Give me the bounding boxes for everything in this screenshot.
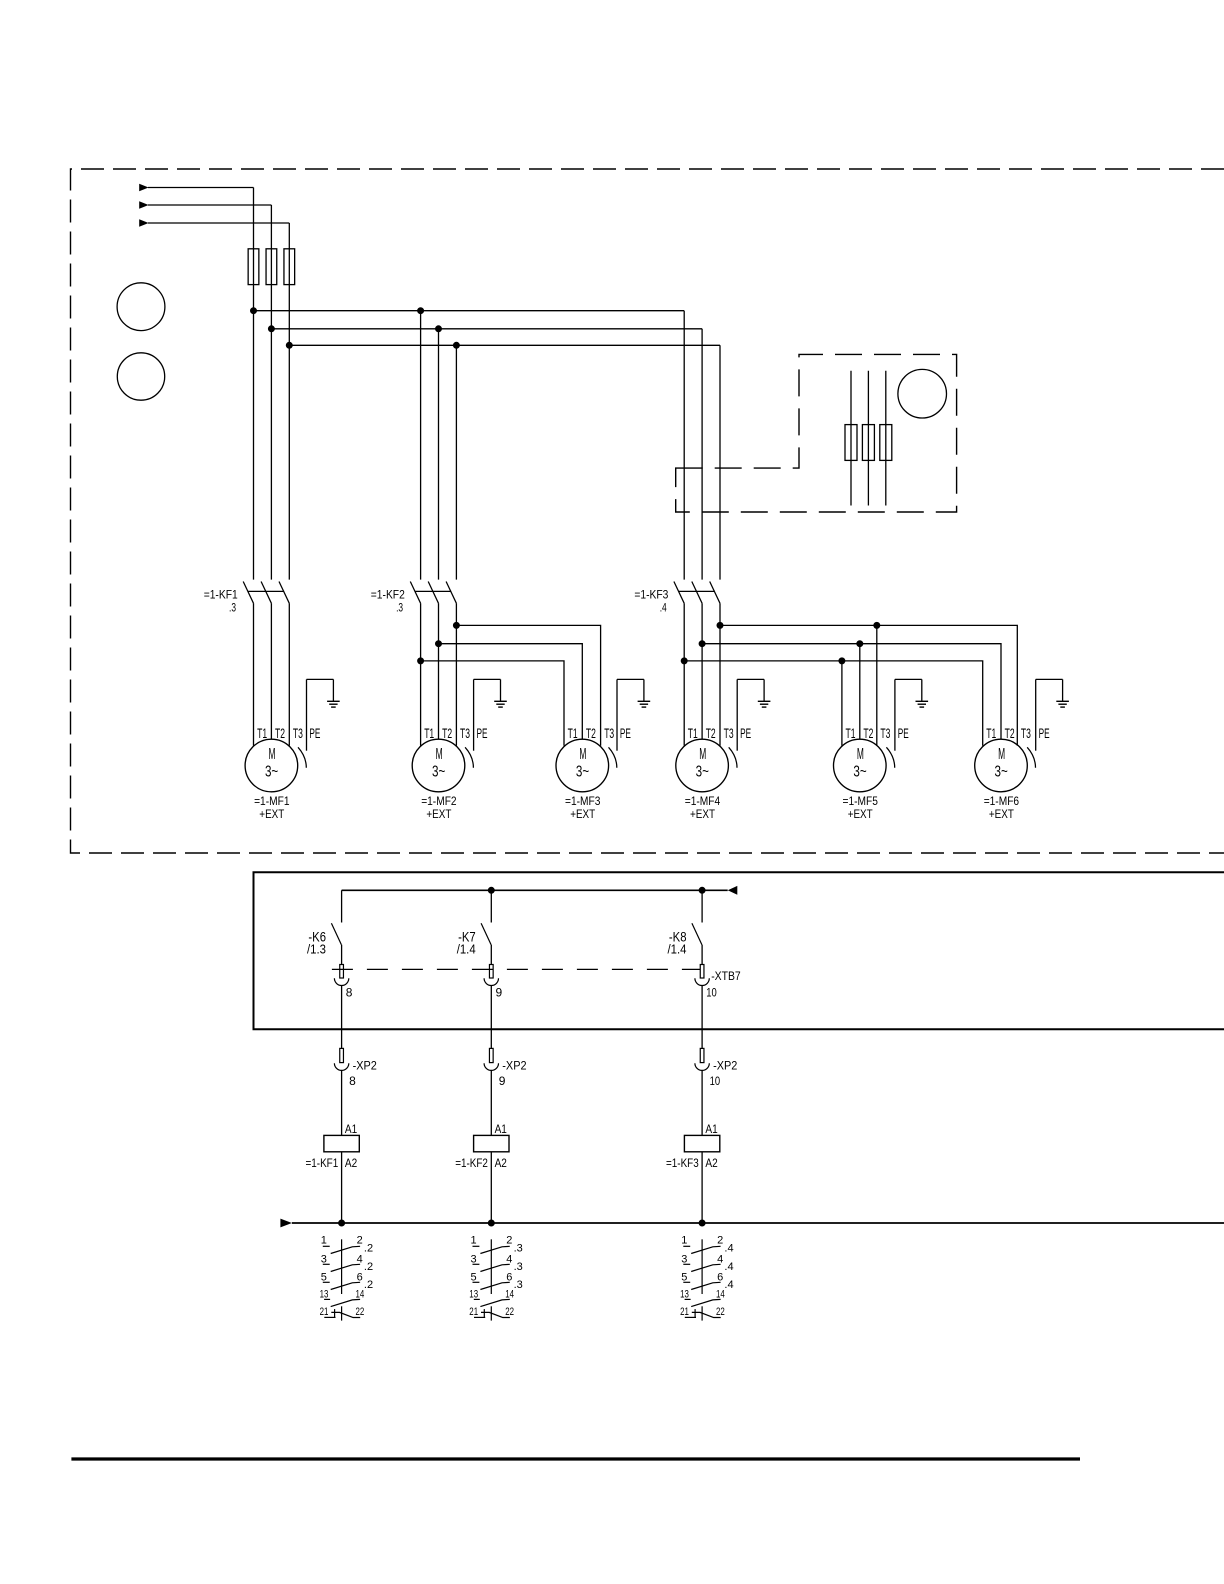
contact mirror linkage =1-KF1	[341, 1239, 343, 1294]
switch contact -K8	[692, 923, 702, 944]
junction bus K8	[699, 887, 705, 893]
svg-text:13: 13	[469, 1289, 478, 1301]
wire L1 vertical to contact	[253, 188, 255, 580]
plug pin -XP2:9	[489, 1048, 493, 1062]
ground =1-MF5	[921, 679, 923, 701]
motor =1-MF3	[556, 739, 609, 792]
svg-text:PE: PE	[620, 725, 631, 741]
svg-text:A1: A1	[495, 1122, 508, 1136]
switch contact -K6	[331, 923, 341, 944]
svg-text:14: 14	[505, 1289, 514, 1301]
svg-text:/1.4: /1.4	[457, 941, 476, 956]
wire -K7 to terminal	[490, 945, 492, 965]
svg-text:-XP2: -XP2	[353, 1058, 378, 1072]
feeder dashed enclosure	[676, 354, 957, 512]
svg-text:.3: .3	[229, 600, 236, 614]
feeder fuse 2	[862, 425, 874, 461]
svg-text:T1: T1	[688, 725, 698, 741]
svg-text:T3: T3	[724, 725, 734, 741]
junction L2 at group1	[268, 326, 274, 332]
svg-text:2: 2	[357, 1235, 363, 1247]
switch contact -K7	[481, 923, 491, 944]
svg-text:22: 22	[505, 1306, 514, 1318]
wire -K7 terminal to plug	[490, 986, 492, 1049]
svg-text:=1-KF2: =1-KF2	[455, 1156, 488, 1170]
svg-text:PE: PE	[898, 725, 909, 741]
terminal strip -XTB7 dashed line	[332, 968, 700, 970]
wire coil =1-KF1 to bus	[341, 1152, 343, 1223]
PE arc =1-MF5	[886, 747, 894, 767]
svg-text:.3: .3	[514, 1279, 523, 1291]
wire branch KF2-MF3 T2	[439, 644, 583, 740]
junction bus coil 2	[488, 1220, 494, 1226]
junction MF5 tap T1	[839, 658, 845, 664]
wire MF5 T3 drop	[876, 625, 878, 745]
svg-text:=1-KF1: =1-KF1	[306, 1156, 339, 1170]
wire group2 T1 contact to motor	[420, 603, 422, 746]
terminal socket -XTB7:8	[334, 978, 348, 985]
svg-text:T3: T3	[460, 725, 470, 741]
svg-text:+EXT: +EXT	[989, 807, 1014, 821]
PE arc =1-MF1	[298, 747, 306, 767]
wire group1 T3 contact to motor	[288, 603, 290, 746]
wire L3 vertical to contact	[288, 223, 290, 580]
instrument circle top	[117, 283, 165, 331]
junction bus K7	[488, 887, 494, 893]
plug socket -XP2:8	[334, 1063, 348, 1070]
wire -K7 upper	[490, 890, 492, 922]
svg-text:21: 21	[320, 1306, 329, 1318]
svg-text:3~: 3~	[853, 763, 866, 780]
svg-text:T2: T2	[863, 725, 873, 741]
coil =1-KF1	[324, 1135, 359, 1151]
feeder wire 1	[850, 371, 852, 506]
junction L1 at group2 tap	[418, 308, 424, 314]
PE arc =1-MF2	[465, 747, 473, 767]
fuse F3	[284, 249, 295, 285]
svg-text:6: 6	[717, 1271, 723, 1283]
wire coil =1-KF2 to bus	[490, 1152, 492, 1223]
svg-text:.4: .4	[724, 1242, 733, 1254]
svg-text:21: 21	[680, 1306, 689, 1318]
wire supply L2 horizontal	[148, 204, 271, 206]
wire group1 T2 contact to motor	[270, 603, 272, 739]
terminal pin -XTB7:8	[340, 965, 344, 979]
svg-text:T2: T2	[586, 725, 596, 741]
feeder fuse 3	[880, 425, 892, 461]
junction L3 at group2 tap	[453, 342, 459, 348]
svg-text:3: 3	[321, 1253, 327, 1265]
supply arrow L3	[139, 219, 148, 227]
bus continuation arrow	[728, 886, 738, 895]
instrument circle bottom	[117, 353, 164, 400]
svg-text:T2: T2	[275, 725, 285, 741]
wire group1 T1 contact to motor	[253, 603, 255, 746]
junction L3 at group1	[286, 342, 292, 348]
wire branch KF2-MF3 T3	[456, 625, 600, 745]
svg-text:=1-KF2: =1-KF2	[371, 587, 405, 601]
junction branch T1	[681, 658, 687, 664]
svg-text:A1: A1	[705, 1122, 718, 1136]
wire PE-ground link =1-MF4	[737, 678, 764, 680]
ground =1-MF4	[763, 679, 765, 701]
svg-text:=1-KF3: =1-KF3	[666, 1156, 699, 1170]
svg-text:+EXT: +EXT	[848, 807, 873, 821]
wire supply L1 horizontal	[148, 187, 254, 189]
svg-text:9: 9	[496, 986, 503, 1000]
wire branch KF3-MF6 T1	[684, 661, 983, 746]
wire L3 drop to KF2	[455, 345, 457, 579]
svg-text:8: 8	[349, 1074, 356, 1088]
wire -K6 upper	[341, 890, 343, 922]
svg-text:A1: A1	[345, 1122, 358, 1136]
coil =1-KF2	[474, 1135, 509, 1151]
svg-text:T3: T3	[293, 725, 303, 741]
control bus L+	[342, 889, 728, 891]
svg-text:A2: A2	[705, 1156, 718, 1170]
svg-text:M: M	[998, 746, 1005, 763]
wire distribution L3 horizontal	[289, 344, 720, 346]
wire group4 T1 contact to motor	[683, 603, 685, 746]
svg-text:T2: T2	[442, 725, 452, 741]
svg-text:T3: T3	[604, 725, 614, 741]
contact mirror linkage =1-KF2	[490, 1239, 492, 1294]
svg-text:PE: PE	[1039, 725, 1050, 741]
bus N continuation arrow	[280, 1219, 292, 1228]
junction branch T2	[699, 641, 705, 647]
wire group2 T2 contact to motor	[438, 603, 440, 739]
ground =1-MF2	[500, 679, 502, 701]
svg-text:T2: T2	[706, 725, 716, 741]
svg-text:.4: .4	[660, 600, 667, 614]
svg-text:9: 9	[499, 1074, 506, 1088]
svg-text:.3: .3	[514, 1261, 523, 1273]
contactor main contacts =1-KF3	[674, 582, 684, 604]
junction bus coil 1	[339, 1220, 345, 1226]
wire L1 drop to KF2	[420, 311, 422, 580]
svg-text:+EXT: +EXT	[690, 807, 715, 821]
wire PE drop =1-MF1	[306, 679, 308, 750]
svg-text:4: 4	[506, 1253, 512, 1265]
svg-text:5: 5	[470, 1271, 476, 1283]
wire PE drop =1-MF5	[894, 679, 896, 750]
wire PE-ground link =1-MF3	[617, 678, 644, 680]
junction L2 at group2 tap	[436, 326, 442, 332]
terminal pin -XTB7:9	[489, 965, 493, 979]
wire group2 T3 contact to motor	[455, 603, 457, 746]
wire L2 vertical to contact	[270, 205, 272, 580]
svg-text:T1: T1	[986, 725, 996, 741]
svg-text:=1-MF4: =1-MF4	[685, 794, 721, 808]
svg-text:14: 14	[356, 1289, 365, 1301]
wire MF5 T2 drop	[859, 644, 861, 740]
junction MF5 tap T2	[857, 641, 863, 647]
plug pin -XP2:8	[340, 1048, 344, 1062]
plug socket -XP2:10	[695, 1063, 709, 1070]
feeder fuse 1	[845, 425, 857, 461]
svg-text:6: 6	[357, 1271, 363, 1283]
svg-text:T1: T1	[424, 725, 434, 741]
svg-text:22: 22	[716, 1306, 725, 1318]
junction branch T3	[717, 622, 723, 628]
svg-text:2: 2	[506, 1235, 512, 1247]
svg-text:-XP2: -XP2	[713, 1058, 738, 1072]
junction branch T2	[436, 641, 442, 647]
svg-text:3~: 3~	[576, 763, 589, 780]
svg-text:10: 10	[710, 1074, 721, 1088]
wire PE-ground link =1-MF5	[895, 678, 922, 680]
svg-text:1: 1	[470, 1235, 476, 1247]
PE arc =1-MF4	[729, 747, 737, 767]
supply arrow L1	[139, 184, 148, 192]
svg-text:3~: 3~	[265, 763, 278, 780]
svg-text:13: 13	[320, 1289, 329, 1301]
motor =1-MF4	[676, 739, 729, 792]
svg-text:+EXT: +EXT	[426, 807, 451, 821]
svg-text:PE: PE	[740, 725, 751, 741]
svg-text:PE: PE	[309, 725, 320, 741]
junction L1 at group1	[251, 308, 257, 314]
svg-text:.3: .3	[514, 1242, 523, 1254]
wire supply L3 horizontal	[148, 222, 289, 224]
svg-text:T1: T1	[568, 725, 578, 741]
ground =1-MF1	[332, 679, 334, 701]
svg-text:6: 6	[506, 1271, 512, 1283]
contactor main contacts =1-KF2	[410, 582, 420, 604]
wire PE drop =1-MF2	[473, 679, 475, 750]
svg-text:10: 10	[706, 986, 717, 1000]
wire plug to coil =1-KF1	[341, 1071, 343, 1136]
svg-text:T3: T3	[880, 725, 890, 741]
wire distribution L1 horizontal	[254, 310, 685, 312]
feeder wire 2	[867, 371, 869, 506]
svg-text:M: M	[699, 746, 706, 763]
svg-text:=1-MF3: =1-MF3	[565, 794, 601, 808]
svg-text:=1-MF1: =1-MF1	[254, 794, 290, 808]
PE arc =1-MF6	[1027, 747, 1035, 767]
wire L2 drop to KF3	[701, 329, 703, 580]
svg-text:.4: .4	[724, 1261, 733, 1273]
junction MF5 tap T3	[874, 622, 880, 628]
svg-text:-XTB7: -XTB7	[711, 969, 741, 983]
svg-text:+EXT: +EXT	[570, 807, 595, 821]
svg-text:=1-KF3: =1-KF3	[634, 587, 668, 601]
title block rule	[71, 1457, 1080, 1460]
fuse F2	[266, 249, 277, 285]
wire L1 drop to KF3	[683, 311, 685, 580]
svg-text:+EXT: +EXT	[259, 807, 284, 821]
feeder wire 3	[885, 371, 887, 506]
wire L2 drop to KF2	[438, 329, 440, 580]
svg-text:T1: T1	[846, 725, 856, 741]
svg-text:3~: 3~	[995, 763, 1008, 780]
wire PE-ground link =1-MF2	[474, 678, 501, 680]
wire PE drop =1-MF4	[736, 679, 738, 750]
svg-text:M: M	[579, 746, 586, 763]
motor =1-MF6	[975, 739, 1028, 792]
supply arrow L2	[139, 201, 148, 209]
svg-text:M: M	[857, 746, 864, 763]
wire coil =1-KF3 to bus	[701, 1152, 703, 1223]
svg-text:=1-KF1: =1-KF1	[204, 587, 238, 601]
svg-text:4: 4	[357, 1253, 363, 1265]
ground =1-MF6	[1062, 679, 1064, 701]
svg-text:.2: .2	[364, 1242, 373, 1254]
svg-text:A2: A2	[495, 1156, 508, 1170]
wire -K6 to terminal	[341, 945, 343, 965]
wire plug to coil =1-KF2	[490, 1071, 492, 1136]
wire PE-ground link =1-MF1	[307, 678, 334, 680]
junction branch T3	[453, 622, 459, 628]
wire -K8 terminal to plug	[701, 986, 703, 1049]
plug socket -XP2:9	[484, 1063, 498, 1070]
wire L3 drop to KF3	[719, 345, 721, 579]
plug pin -XP2:10	[700, 1048, 704, 1062]
svg-text:.2: .2	[364, 1261, 373, 1273]
junction bus coil 3	[699, 1220, 705, 1226]
wire PE drop =1-MF3	[616, 679, 618, 750]
contactor main contacts =1-KF1	[243, 582, 253, 604]
svg-text:5: 5	[321, 1271, 327, 1283]
control panel solid border	[254, 872, 1224, 1029]
motor =1-MF5	[834, 739, 887, 792]
wire -K6 terminal to plug	[341, 986, 343, 1049]
svg-text:13: 13	[680, 1289, 689, 1301]
terminal socket -XTB7:10	[695, 978, 709, 985]
svg-text:22: 22	[356, 1306, 365, 1318]
svg-text:/1.3: /1.3	[307, 941, 326, 956]
svg-text:14: 14	[716, 1289, 725, 1301]
wire -K8 to terminal	[701, 945, 703, 965]
feeder instrument circle	[898, 369, 947, 418]
svg-text:T3: T3	[1021, 725, 1031, 741]
control bus N/M	[292, 1222, 1224, 1224]
svg-text:M: M	[436, 746, 443, 763]
svg-text:M: M	[269, 746, 276, 763]
svg-text:3~: 3~	[432, 763, 445, 780]
svg-text:1: 1	[321, 1235, 327, 1247]
terminal socket -XTB7:9	[484, 978, 498, 985]
coil =1-KF3	[684, 1135, 719, 1151]
svg-text:.2: .2	[364, 1279, 373, 1291]
svg-text:2: 2	[717, 1235, 723, 1247]
wire PE-ground link =1-MF6	[1036, 678, 1063, 680]
wire -K8 upper	[701, 890, 703, 922]
svg-text:3~: 3~	[696, 763, 709, 780]
ground =1-MF3	[643, 679, 645, 701]
wire plug to coil =1-KF3	[701, 1071, 703, 1136]
svg-text:-XP2: -XP2	[502, 1058, 527, 1072]
motor =1-MF2	[412, 739, 465, 792]
svg-text:A2: A2	[345, 1156, 358, 1170]
contact mirror linkage =1-KF3	[701, 1239, 703, 1294]
svg-text:4: 4	[717, 1253, 723, 1265]
svg-text:3: 3	[681, 1253, 687, 1265]
svg-text:1: 1	[681, 1235, 687, 1247]
svg-text:8: 8	[346, 986, 353, 1000]
svg-text:PE: PE	[477, 725, 488, 741]
wire branch KF3-MF6 T3	[720, 625, 1017, 745]
svg-text:.4: .4	[724, 1279, 733, 1291]
wire distribution L2 horizontal	[271, 328, 702, 330]
wire MF5 T1 drop	[841, 661, 843, 746]
svg-text:=1-MF5: =1-MF5	[843, 794, 879, 808]
fuse F1	[248, 249, 259, 285]
svg-text:=1-MF2: =1-MF2	[421, 794, 457, 808]
svg-text:/1.4: /1.4	[668, 941, 687, 956]
PE arc =1-MF3	[609, 747, 617, 767]
wire PE drop =1-MF6	[1035, 679, 1037, 750]
svg-text:3: 3	[470, 1253, 476, 1265]
svg-text:T2: T2	[1005, 725, 1015, 741]
svg-text:T1: T1	[257, 725, 267, 741]
wire branch KF2-MF3 T1	[421, 661, 564, 746]
junction branch T1	[418, 658, 424, 664]
wire branch KF3-MF6 T2	[702, 644, 1001, 740]
svg-text:.3: .3	[396, 600, 403, 614]
wire group4 T2 contact to motor	[701, 603, 703, 739]
svg-text:21: 21	[469, 1306, 478, 1318]
motor =1-MF1	[245, 739, 298, 792]
terminal pin -XTB7:10	[700, 965, 704, 979]
wire group4 T3 contact to motor	[719, 603, 721, 746]
enclosure dashed border (+EXT field)	[71, 169, 1224, 853]
svg-text:=1-MF6: =1-MF6	[984, 794, 1020, 808]
svg-text:5: 5	[681, 1271, 687, 1283]
